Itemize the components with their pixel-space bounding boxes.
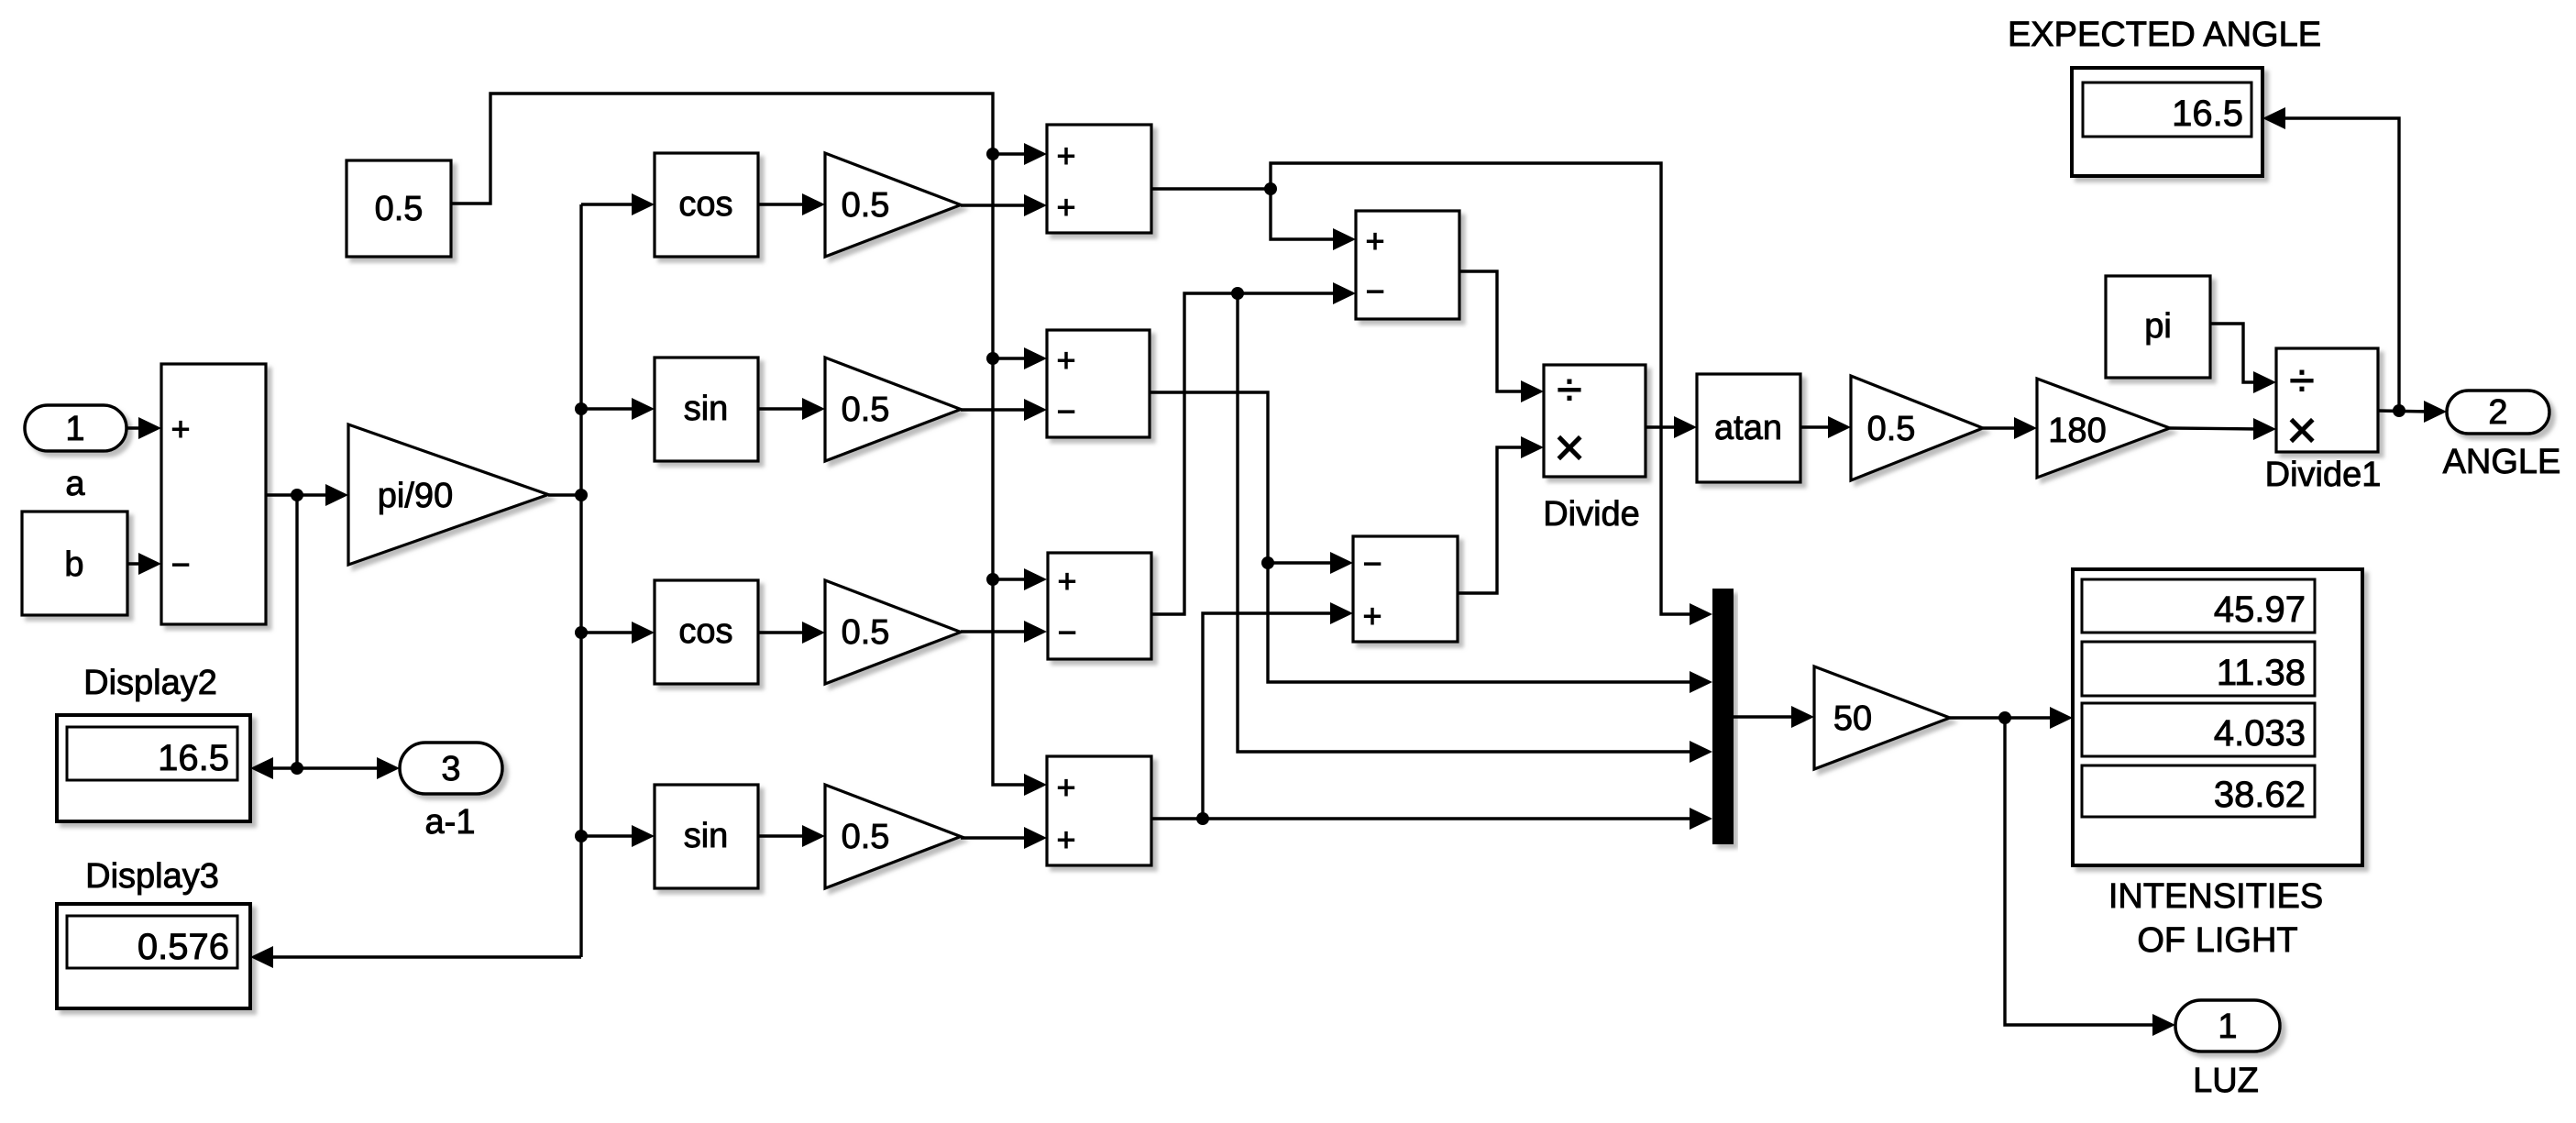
outport 1 (LUZ) — [2175, 1000, 2280, 1100]
svg-text:−: − — [1362, 545, 1382, 582]
wire gain3 to SumC second input — [961, 621, 1047, 643]
svg-text:Display3: Display3 — [85, 857, 219, 896]
wire Sum1 output to gain pi/90 — [266, 484, 348, 506]
svg-text:45.97: 45.97 — [2214, 589, 2306, 630]
svg-text:−: − — [1365, 272, 1384, 310]
svg-text:cos: cos — [678, 612, 732, 651]
outport 2 (ANGLE) — [2443, 391, 2561, 481]
wire node to outport 3 — [297, 757, 400, 779]
wire sin1 to gain — [758, 398, 825, 420]
outport 3 (a-1) — [400, 743, 502, 842]
svg-text:ANGLE: ANGLE — [2443, 443, 2561, 481]
sum SumD (+,+) — [1047, 756, 1151, 865]
wire trunk to sin row2 — [575, 398, 655, 420]
svg-text:0.5: 0.5 — [842, 818, 890, 856]
svg-text:38.62: 38.62 — [2214, 775, 2306, 815]
wire b to Sum1 - input — [127, 553, 161, 575]
svg-text:4.033: 4.033 — [2214, 713, 2306, 754]
display Display3 — [57, 857, 250, 1008]
svg-text:0.576: 0.576 — [138, 927, 229, 967]
svg-text:pi/90: pi/90 — [378, 477, 453, 515]
svg-text:Divide: Divide — [1543, 495, 1640, 534]
wire cos2 to gain — [758, 622, 825, 644]
sum SumF (-,+) — [1353, 536, 1458, 642]
wire SumD output to mux input4 — [1151, 808, 1712, 830]
wire gain 180 to Divide1 bottom input — [2170, 418, 2276, 440]
wire Divide output to atan — [1646, 416, 1697, 438]
svg-text:atan: atan — [1714, 409, 1782, 447]
wire branch SumD to SumF + input — [1203, 602, 1353, 819]
svg-text:×: × — [2286, 401, 2317, 460]
wire gain2 to SumB second input — [961, 399, 1047, 421]
trig block sin (row2) — [655, 358, 758, 461]
mux — [1712, 589, 1734, 844]
wire atan output to gain 0.5 — [1800, 416, 1851, 438]
wire gain 50 to INTENSITIES display — [1950, 707, 2073, 729]
svg-text:×: × — [1554, 418, 1585, 478]
svg-text:OF LIGHT: OF LIGHT — [2137, 921, 2297, 960]
svg-text:1: 1 — [65, 410, 84, 448]
wire SumC output to SumE - input — [1151, 282, 1356, 614]
wire branch Divide1 up to EXPECTED ANGLE display — [2262, 107, 2399, 411]
inport 1 (a) — [25, 405, 127, 503]
svg-text:1: 1 — [2218, 1007, 2237, 1046]
gain 0.5 (row1) — [825, 153, 961, 257]
svg-text:cos: cos — [678, 185, 732, 224]
svg-text:+: + — [1056, 820, 1075, 858]
wire trunk to sin row4 — [575, 825, 655, 847]
gain 0.5 (row4) — [825, 785, 961, 888]
svg-text:−: − — [1056, 392, 1075, 430]
wire SumA output to mux input1 — [1151, 163, 1712, 625]
wire gain1 to SumA second input — [961, 194, 1047, 216]
svg-text:sin: sin — [684, 390, 729, 428]
wire constant 0.5 feed to sum + inputs — [451, 94, 1047, 796]
trig block sin (row4) — [655, 785, 758, 888]
wire branch SumC to mux input3 — [1238, 293, 1712, 763]
wire SumF output to Divide bottom input — [1458, 436, 1544, 593]
divide block Divide1 — [2265, 348, 2382, 494]
wire branch down to LUZ outport — [2005, 718, 2175, 1036]
atan block — [1697, 374, 1800, 482]
sum SumB (+,-) — [1047, 330, 1150, 437]
wire gain pi/90 output to trunk — [548, 489, 588, 501]
svg-text:Divide1: Divide1 — [2265, 456, 2382, 494]
svg-text:+: + — [1056, 137, 1075, 174]
svg-text:2: 2 — [2488, 393, 2507, 432]
svg-text:0.5: 0.5 — [1867, 410, 1916, 448]
constant b — [22, 512, 127, 615]
divide block Divide — [1543, 364, 1646, 534]
wire pi to Divide1 top input — [2210, 324, 2276, 393]
wire node to Display2 — [250, 757, 303, 779]
constant 0.5 — [347, 160, 451, 257]
svg-text:−: − — [1057, 613, 1076, 651]
svg-text:INTENSITIES: INTENSITIES — [2108, 877, 2323, 916]
svg-text:+: + — [1057, 562, 1076, 600]
sum Sum1 (+,-) — [161, 364, 266, 624]
wire branch SumB to SumF - input — [1268, 552, 1353, 574]
svg-text:50: 50 — [1833, 699, 1872, 738]
svg-text:pi: pi — [2144, 307, 2172, 346]
wire branch Sum1 output down to Display2 node — [295, 495, 298, 768]
svg-text:÷: ÷ — [2289, 355, 2314, 406]
sum SumA (+,+) — [1047, 125, 1151, 233]
gain 0.5 (after atan) — [1851, 376, 1983, 480]
wire mux output to gain 50 — [1734, 706, 1814, 728]
svg-text:sin: sin — [684, 817, 729, 855]
svg-text:a-1: a-1 — [425, 803, 476, 842]
wire trunk to cos row3 — [575, 622, 655, 644]
wire branch to SumA + input — [986, 143, 1047, 165]
wire Divide1 output to outport 2 — [2378, 401, 2447, 423]
wire gain 0.5 to gain 180 — [1983, 417, 2037, 439]
wire branch SumA to SumE + input — [1271, 189, 1356, 250]
svg-text:0.5: 0.5 — [842, 391, 890, 429]
display EXPECTED ANGLE — [2008, 16, 2321, 176]
wire SumB output to mux input2 — [1150, 392, 1712, 693]
svg-text:0.5: 0.5 — [842, 613, 890, 652]
svg-text:+: + — [1056, 341, 1075, 379]
gain 50 — [1814, 666, 1950, 769]
wire gain4 to SumD second input — [961, 827, 1047, 849]
svg-text:+: + — [1056, 768, 1075, 806]
svg-text:0.5: 0.5 — [842, 186, 890, 225]
svg-text:÷: ÷ — [1557, 364, 1581, 415]
wire sin2 to gain — [758, 825, 825, 847]
gain 0.5 (row3) — [825, 580, 961, 684]
svg-text:3: 3 — [441, 750, 460, 788]
trig block cos (row1) — [655, 153, 758, 257]
svg-text:Display2: Display2 — [83, 664, 217, 702]
wire branch to SumB + input — [986, 347, 1047, 369]
gain 0.5 (row2) — [825, 358, 961, 461]
svg-text:11.38: 11.38 — [2217, 653, 2306, 693]
svg-text:+: + — [1365, 222, 1384, 259]
sum SumC (+,-) — [1048, 553, 1151, 659]
svg-text:16.5: 16.5 — [158, 738, 229, 778]
svg-text:+: + — [171, 410, 190, 447]
trig block cos (row3) — [655, 580, 758, 684]
svg-text:16.5: 16.5 — [2172, 94, 2243, 134]
wire trunk to cos row1 — [581, 193, 655, 215]
wire trunk vertical — [579, 204, 582, 957]
svg-text:a: a — [65, 465, 85, 503]
svg-text:+: + — [1056, 188, 1075, 226]
svg-text:0.5: 0.5 — [375, 190, 424, 228]
svg-text:180: 180 — [2048, 412, 2106, 450]
svg-text:−: − — [171, 545, 190, 583]
svg-text:b: b — [64, 545, 83, 584]
sum SumE (+,-) — [1356, 211, 1459, 319]
wire SumE output to Divide top input — [1459, 271, 1544, 402]
constant pi — [2106, 276, 2210, 378]
wire branch to SumC + input — [986, 568, 1047, 590]
gain 180 — [2037, 379, 2170, 478]
svg-text:EXPECTED ANGLE: EXPECTED ANGLE — [2008, 16, 2321, 54]
wire trunk bottom to Display3 — [250, 946, 581, 968]
gain pi/90 — [348, 424, 548, 565]
svg-text:+: + — [1362, 597, 1382, 634]
wire inport1 to Sum1 + input — [127, 417, 161, 439]
wire cos1 to gain — [758, 193, 825, 215]
svg-text:LUZ: LUZ — [2193, 1062, 2259, 1100]
display Display2 — [57, 664, 250, 821]
display INTENSITIES OF LIGHT — [2073, 569, 2362, 960]
